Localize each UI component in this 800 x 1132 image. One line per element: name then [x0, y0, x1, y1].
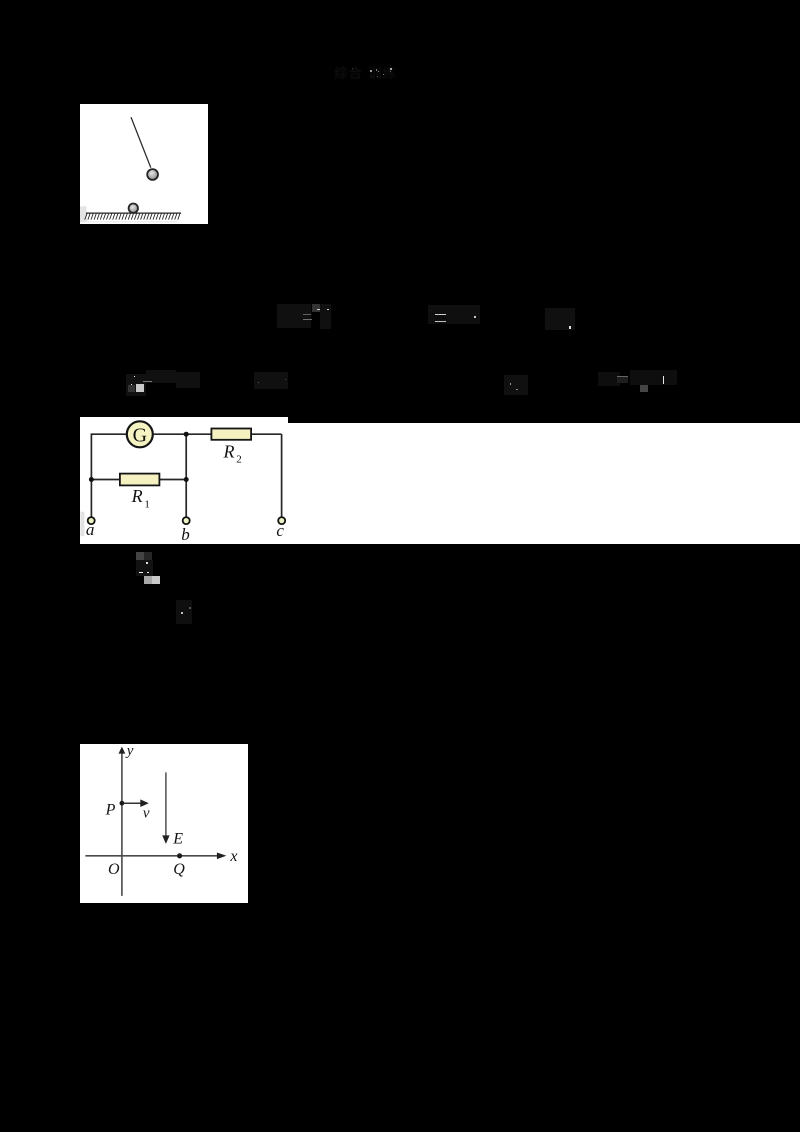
- svg-text:c: c: [276, 521, 284, 540]
- svg-text:1: 1: [144, 499, 150, 511]
- svg-text:2: 2: [236, 454, 242, 466]
- resistor R1: [119, 474, 158, 486]
- wire middle vertical (node b): [185, 434, 187, 517]
- pendulum bob: [147, 169, 158, 180]
- white paragraph band: [80, 423, 800, 544]
- ground hatching: [85, 214, 180, 220]
- point Q: [177, 853, 182, 858]
- galvanometer G: [126, 421, 152, 447]
- ball on ground: [129, 204, 138, 213]
- node at b top: [183, 432, 188, 437]
- x-axis: [85, 855, 218, 857]
- velocity arrow v: [124, 802, 142, 804]
- x-axis arrowhead: [217, 852, 227, 859]
- gray edge strip: [80, 512, 84, 537]
- y-axis arrowhead: [119, 746, 126, 753]
- svg-text:x: x: [229, 848, 237, 865]
- wire left vertical: [90, 433, 92, 517]
- figure background: [80, 104, 208, 224]
- svg-text:Q: Q: [173, 861, 185, 878]
- svg-text:R: R: [130, 486, 142, 506]
- svg-text:a: a: [85, 520, 94, 539]
- figure: bridge circuit: [80, 417, 288, 544]
- node at left middle: [88, 477, 93, 482]
- faint equation cluster row2-a: [126, 374, 146, 396]
- terminal b: [182, 517, 189, 524]
- field arrow E: [165, 772, 167, 836]
- faint page title text: [334, 62, 397, 82]
- svg-text:R: R: [222, 442, 234, 462]
- faint equation cluster row1-b: [428, 305, 480, 324]
- faint worked-answer cluster A: [136, 552, 144, 560]
- resistor R2: [211, 429, 251, 440]
- y-axis: [121, 752, 123, 896]
- wire middle horizontal (R1 branch): [91, 479, 186, 481]
- faint equation cluster row2-d: [598, 372, 620, 386]
- wire right vertical: [280, 434, 282, 517]
- title speckle dots: [370, 70, 372, 72]
- figure background: [80, 417, 288, 544]
- figure: charge in field, xy axes: [80, 744, 248, 903]
- terminal c: [278, 517, 285, 524]
- faint equation cluster row2-c: [504, 375, 528, 395]
- svg-text:y: y: [125, 744, 134, 759]
- faint equation cluster row1-a: [277, 304, 311, 328]
- svg-text:P: P: [105, 801, 116, 818]
- figure: pendulum over ground: [80, 104, 208, 224]
- svg-text:v: v: [143, 805, 150, 821]
- gray edge strip: [80, 206, 87, 222]
- point P: [120, 801, 125, 806]
- ground line: [86, 212, 181, 214]
- svg-text:E: E: [172, 830, 183, 847]
- svg-text:O: O: [108, 861, 120, 878]
- faint equation cluster row2-b: [254, 372, 288, 389]
- figure background: [80, 744, 248, 903]
- node at b middle: [183, 477, 188, 482]
- svg-text:b: b: [181, 525, 190, 544]
- pendulum string: [131, 117, 151, 168]
- faint worked-answer cluster B: [176, 600, 192, 624]
- terminal a: [87, 517, 94, 524]
- faint baseline strip: [86, 221, 177, 222]
- wire top a-b-c rail: [91, 433, 281, 435]
- faint equation cluster row1-c: [545, 308, 575, 330]
- svg-text:G: G: [132, 424, 146, 446]
